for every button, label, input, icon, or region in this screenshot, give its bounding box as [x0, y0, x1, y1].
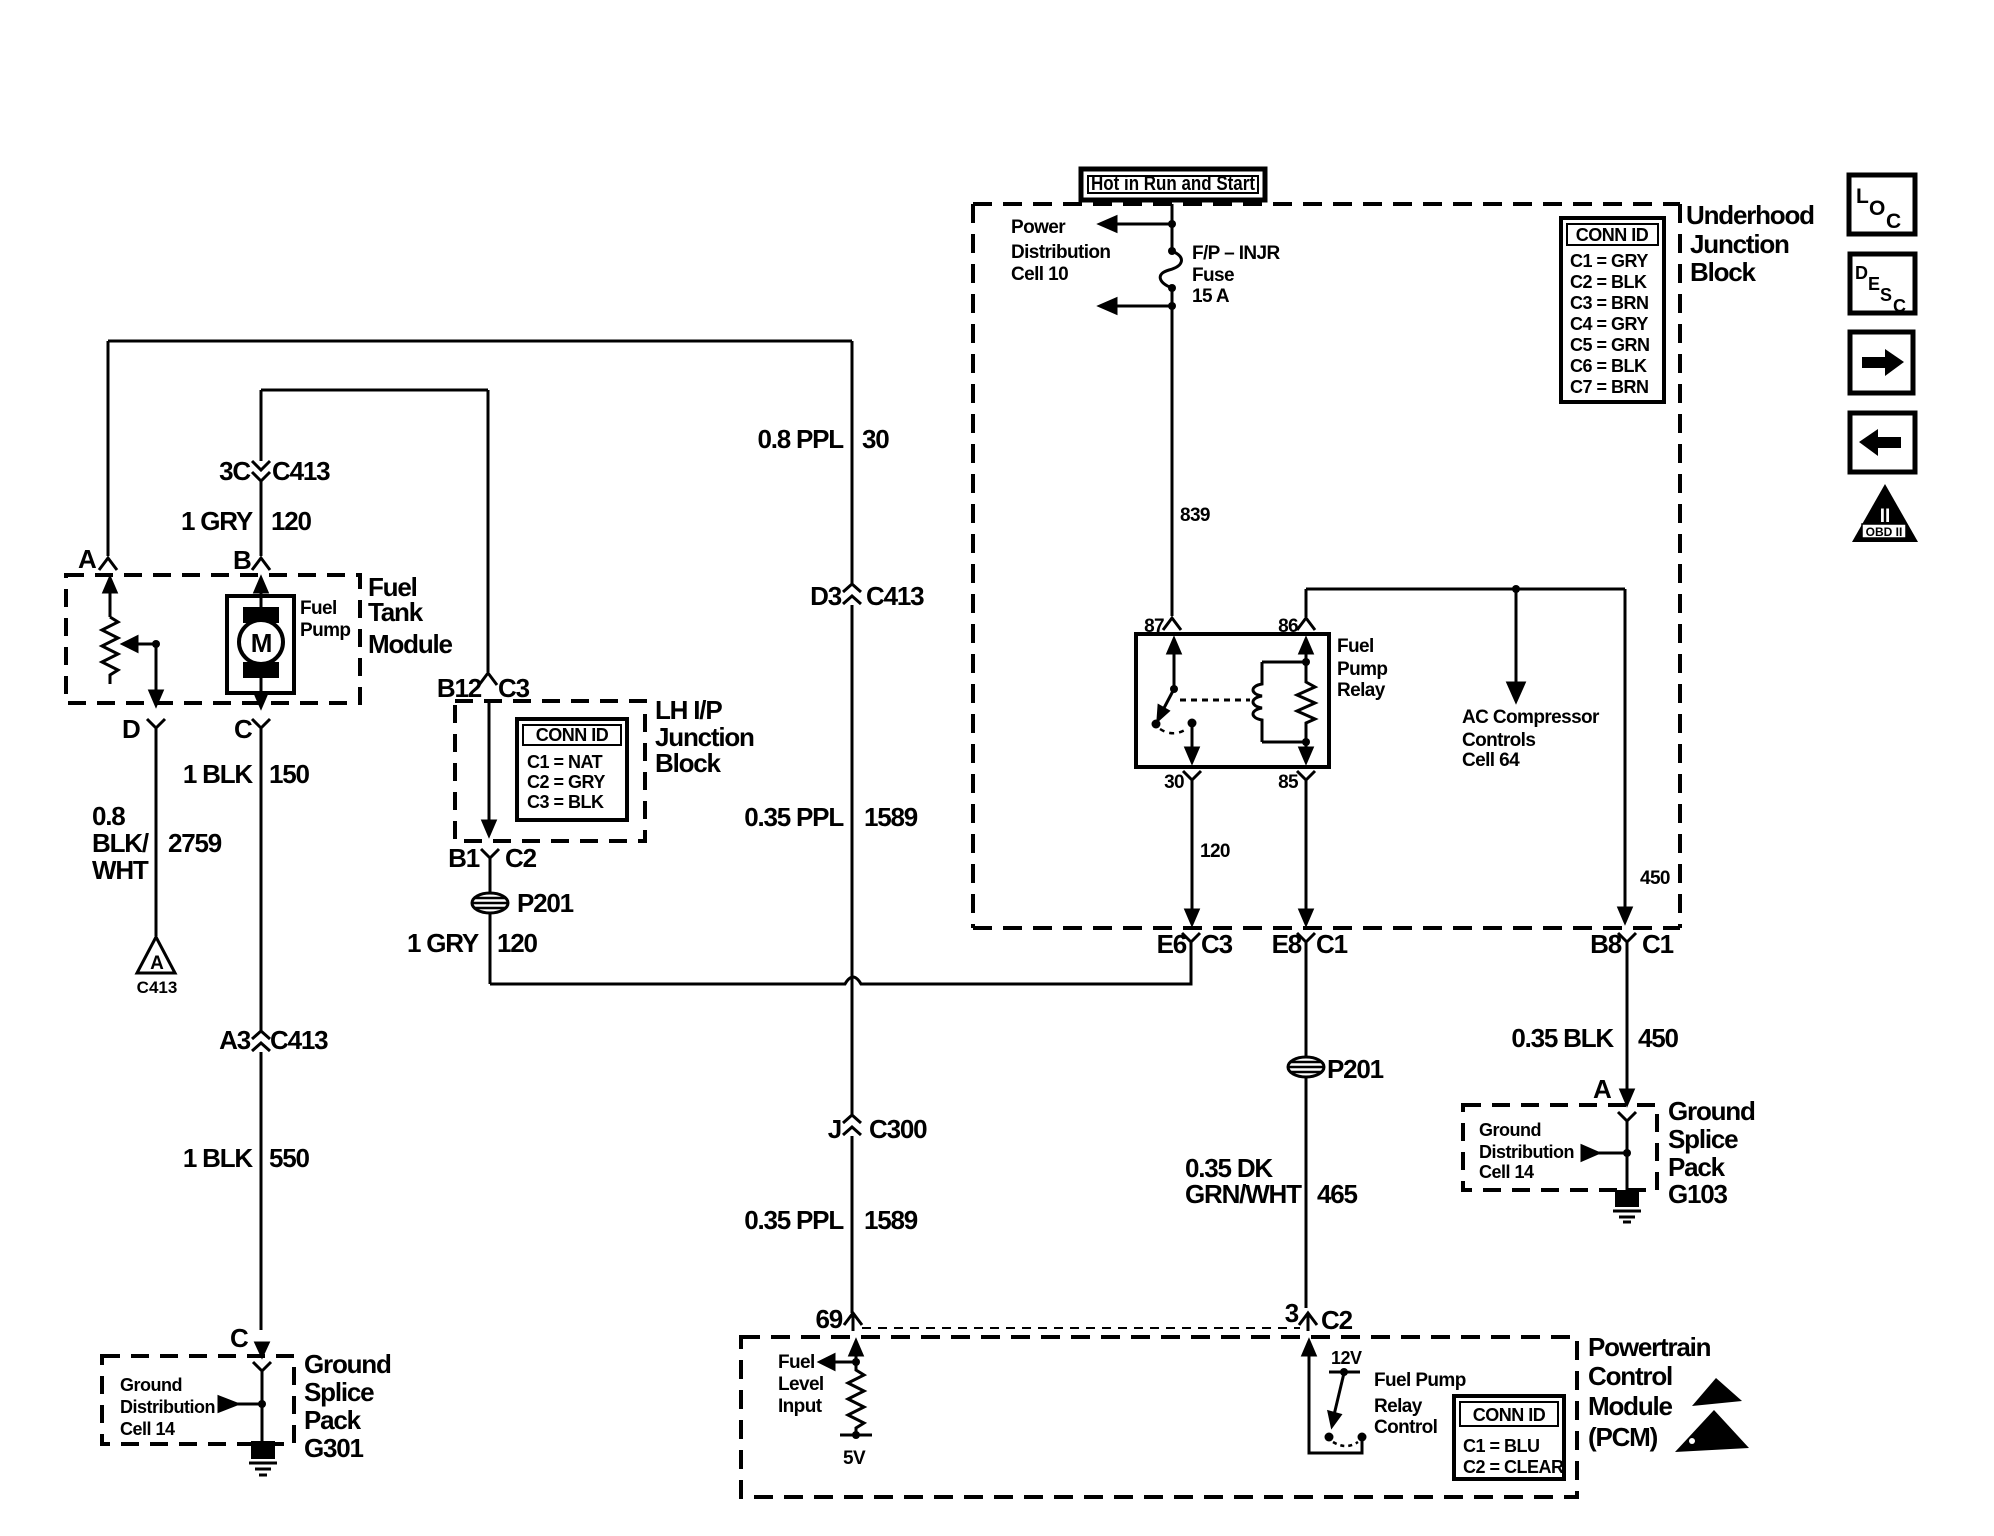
- svg-text:Distribution: Distribution: [1479, 1142, 1574, 1162]
- svg-text:M: M: [251, 628, 271, 658]
- wire C ground run: [260, 737, 263, 1330]
- ground splice pack G103 dashed box: [1463, 1105, 1657, 1190]
- svg-text:C6 = BLK: C6 = BLK: [1570, 356, 1647, 376]
- svg-text:Module: Module: [368, 629, 453, 659]
- connector B12 C3 chevron: [479, 673, 497, 685]
- svg-text:Relay: Relay: [1337, 680, 1386, 701]
- 12V supply bar: [1329, 1371, 1360, 1374]
- AC branch junction dot: [1512, 585, 1520, 593]
- svg-text:2759: 2759: [168, 828, 222, 858]
- svg-text:1 BLK: 1 BLK: [183, 1143, 254, 1173]
- relay switch arm: [1164, 689, 1174, 708]
- svg-text:Fuel Pump: Fuel Pump: [1374, 1370, 1466, 1391]
- svg-text:C4 = GRY: C4 = GRY: [1570, 314, 1648, 334]
- fuel level input text: [778, 1352, 824, 1417]
- svg-text:C413: C413: [270, 1025, 328, 1055]
- svg-text:Distribution: Distribution: [120, 1397, 215, 1417]
- relay actuation dashed link: [1180, 699, 1250, 702]
- svg-text:WHT: WHT: [92, 855, 149, 885]
- svg-text:CONN ID: CONN ID: [536, 725, 609, 745]
- svg-text:BLK/: BLK/: [92, 828, 149, 858]
- connector B1 C2 chevron: [481, 849, 499, 867]
- svg-text:C: C: [1886, 210, 1901, 233]
- fuel tank module label: [368, 572, 453, 659]
- power distribution cell 10 text: [1011, 217, 1281, 526]
- underhood junction block dashed box: [973, 204, 1680, 928]
- svg-text:Input: Input: [778, 1396, 823, 1417]
- icon LOC box: [1849, 175, 1915, 234]
- fuel level signal arrow left: [834, 1361, 856, 1364]
- wire AC compressor horizontal: [1306, 588, 1625, 591]
- LH I/P junction block label: [655, 695, 754, 778]
- icon back arrow box: [1850, 413, 1915, 472]
- relay internal resistor: [1297, 662, 1315, 742]
- fuel pump relay control text: [1374, 1370, 1466, 1438]
- svg-text:C7 = BRN: C7 = BRN: [1570, 377, 1649, 397]
- svg-text:1589: 1589: [864, 802, 918, 832]
- resistor (fuel level sender) arrow up: [109, 590, 112, 617]
- connector B8 C1 chevron: [1618, 933, 1636, 953]
- ESD warning triangle lower: [1675, 1410, 1749, 1452]
- 5V rail bar: [840, 1434, 872, 1437]
- svg-text:465: 465: [1317, 1179, 1358, 1209]
- relay pin 87 chevron: [1163, 618, 1181, 630]
- svg-text:Cell 64: Cell 64: [1462, 750, 1520, 771]
- fuel pump brush bottom: [243, 662, 279, 678]
- svg-text:C1 = BLU: C1 = BLU: [1463, 1436, 1540, 1456]
- svg-text:G103: G103: [1668, 1179, 1728, 1209]
- wire label 0.35 DK GRN/WHT 465: [1185, 1153, 1358, 1209]
- svg-text:Ground: Ground: [120, 1375, 182, 1395]
- svg-text:Control: Control: [1374, 1417, 1437, 1438]
- ground distribution cell 14 text: [120, 1375, 215, 1439]
- ground symbol G103: [1615, 1190, 1639, 1207]
- svg-text:C3 = BRN: C3 = BRN: [1570, 293, 1649, 313]
- svg-text:C5 = GRN: C5 = GRN: [1570, 335, 1650, 355]
- LH I/P junction block dashed box: [455, 701, 645, 841]
- wiper junction dot: [152, 640, 160, 648]
- svg-text:(PCM): (PCM): [1588, 1422, 1658, 1452]
- ground splice pack G301 label: [304, 1349, 391, 1463]
- relay pin 30 chevron: [1183, 771, 1201, 789]
- triangle connector A C413: [137, 937, 175, 973]
- svg-text:Relay: Relay: [1374, 1396, 1423, 1417]
- svg-text:CONN ID: CONN ID: [1473, 1405, 1546, 1425]
- AC compressor controls cell 64 text: [1462, 707, 1600, 771]
- relay control dashed travel arc: [1333, 1442, 1358, 1446]
- wire wiper down to D: [155, 644, 158, 697]
- svg-text:GRN/WHT: GRN/WHT: [1185, 1179, 1302, 1209]
- svg-text:A: A: [1593, 1074, 1612, 1104]
- wire second horizontal (gray feed): [261, 389, 488, 392]
- splice P201 (left): [472, 893, 508, 913]
- relay pin 87 internal arrow: [1173, 651, 1176, 689]
- node D connector chevron: [147, 719, 165, 737]
- wire D down to C413 triangle: [155, 737, 158, 936]
- ground splice pack G301 dashed box: [102, 1356, 294, 1444]
- svg-text:C1: C1: [1316, 929, 1348, 959]
- svg-text:Fuel: Fuel: [300, 598, 337, 619]
- svg-text:Fuel: Fuel: [1337, 636, 1374, 657]
- svg-text:C: C: [234, 714, 253, 744]
- svg-text:C2 = CLEAR: C2 = CLEAR: [1463, 1457, 1564, 1477]
- svg-text:Power: Power: [1011, 217, 1066, 238]
- svg-text:Ground: Ground: [1668, 1096, 1755, 1126]
- svg-text:Block: Block: [655, 748, 722, 778]
- wire label 0.8 BLK/WHT 2759: [92, 801, 222, 885]
- svg-text:C2: C2: [1321, 1305, 1353, 1335]
- fuel pump motor circle M: [239, 620, 283, 664]
- svg-text:AC Compressor: AC Compressor: [1462, 707, 1600, 728]
- svg-text:Ground: Ground: [1479, 1120, 1541, 1140]
- wire top horizontal (fuel level signal): [108, 340, 852, 343]
- svg-text:0.8 PPL: 0.8 PPL: [757, 424, 844, 454]
- svg-text:Control: Control: [1588, 1361, 1672, 1391]
- G103 connector chevron: [1618, 1112, 1636, 1130]
- underhood CONN ID table: [1561, 218, 1664, 402]
- relay coil: [1253, 662, 1262, 742]
- svg-text:Module: Module: [1588, 1391, 1673, 1421]
- wire B1 down: [489, 867, 492, 893]
- svg-text:C: C: [230, 1323, 249, 1353]
- svg-text:B8: B8: [1590, 929, 1622, 959]
- fuel pump label: [300, 598, 350, 641]
- connector pin 3 C2 chevron: [1299, 1313, 1317, 1331]
- relay pin 85 chevron: [1297, 771, 1315, 789]
- svg-text:85: 85: [1278, 772, 1299, 793]
- PCM connector face thin dashed line: [862, 1327, 1300, 1329]
- svg-text:D: D: [1855, 263, 1868, 283]
- svg-text:150: 150: [269, 759, 310, 789]
- wire PPL vertical main: [851, 341, 854, 1313]
- connector E6 C3 chevron: [1182, 933, 1200, 953]
- AC compressor branch arrow: [1515, 589, 1518, 688]
- svg-text:LH I/P: LH I/P: [655, 695, 722, 725]
- svg-text:B1: B1: [448, 843, 480, 873]
- wire to ground G301: [261, 1380, 264, 1441]
- wire through LH I/P block: [488, 701, 491, 826]
- svg-text:Pump: Pump: [1337, 659, 1387, 680]
- svg-text:120: 120: [271, 506, 312, 536]
- svg-text:3: 3: [1285, 1298, 1299, 1328]
- svg-text:C3 = BLK: C3 = BLK: [527, 792, 604, 812]
- svg-text:450: 450: [1640, 868, 1670, 889]
- svg-text:G301: G301: [304, 1433, 364, 1463]
- svg-text:Cell 14: Cell 14: [120, 1419, 175, 1439]
- fuel pump relay label: [1337, 636, 1387, 701]
- LH I/P CONN ID table: [517, 719, 627, 820]
- svg-text:E8: E8: [1272, 929, 1302, 959]
- svg-text:P201: P201: [1327, 1054, 1384, 1084]
- fuel pump outer box: [227, 596, 294, 693]
- ground distribution arm arrow G103: [1598, 1152, 1627, 1155]
- wire to ground G103: [1626, 1130, 1629, 1190]
- svg-text:C3: C3: [498, 673, 530, 703]
- fuel level input arrow into pin 69: [855, 1353, 858, 1362]
- svg-text:C2: C2: [505, 843, 537, 873]
- svg-text:A: A: [150, 953, 164, 974]
- svg-text:C1: C1: [1642, 929, 1674, 959]
- svg-text:0.35 PPL: 0.35 PPL: [744, 802, 844, 832]
- relay control wire L-shape with up arrow: [1309, 1353, 1362, 1453]
- wire B vertical: [260, 390, 263, 556]
- svg-text:D3: D3: [810, 581, 842, 611]
- PCM CONN ID table: [1454, 1396, 1564, 1479]
- ground distribution cell 14 text G103: [1479, 1120, 1574, 1182]
- resistor (fuel level sender) zigzag: [102, 617, 118, 684]
- svg-text:0.35 BLK: 0.35 BLK: [1511, 1023, 1614, 1053]
- icon forward arrow box: [1850, 332, 1913, 393]
- svg-text:B: B: [233, 545, 251, 575]
- wire to B12: [487, 390, 490, 672]
- svg-text:Level: Level: [778, 1374, 824, 1395]
- connector pin 69 chevron: [844, 1313, 862, 1331]
- svg-text:C413: C413: [866, 581, 924, 611]
- svg-text:A3: A3: [219, 1025, 251, 1055]
- relay pin 86 internal arrow: [1305, 651, 1308, 662]
- wire gray horizontal with hop over PPL: [490, 953, 1191, 984]
- splice P201 (right): [1288, 1057, 1324, 1077]
- fuel pump relay box: [1136, 634, 1329, 767]
- connector D3 C413 double chevron: [843, 584, 861, 604]
- svg-text:1589: 1589: [864, 1205, 918, 1235]
- node A connector chevron: [99, 558, 117, 570]
- connector 3C C413 double chevron: [252, 461, 270, 481]
- svg-text:Block: Block: [1690, 257, 1757, 287]
- svg-text:30: 30: [1164, 772, 1184, 793]
- svg-text:C3: C3: [1201, 929, 1233, 959]
- fuel tank module dashed box: [66, 575, 360, 703]
- connector E8 C1 chevron: [1297, 933, 1315, 953]
- svg-text:C2 = GRY: C2 = GRY: [527, 772, 605, 792]
- wire E8 down (dk grn/wht): [1305, 953, 1308, 1308]
- svg-text:E: E: [1868, 274, 1880, 294]
- svg-text:C1 = NAT: C1 = NAT: [527, 752, 603, 772]
- svg-text:Fuel: Fuel: [778, 1352, 815, 1373]
- wire battery feed into fuse: [1171, 204, 1174, 249]
- svg-text:1 BLK: 1 BLK: [183, 759, 254, 789]
- svg-text:Pack: Pack: [304, 1405, 362, 1435]
- svg-text:Distribution: Distribution: [1011, 242, 1110, 263]
- wire 86 drop: [1305, 589, 1308, 617]
- icon DESC box: [1850, 254, 1915, 313]
- ground symbol G301: [251, 1441, 275, 1459]
- svg-text:O: O: [1869, 197, 1885, 220]
- svg-text:3C: 3C: [219, 456, 251, 486]
- wiper arrow of sender: [137, 643, 156, 646]
- svg-text:OBD II: OBD II: [1866, 525, 1903, 539]
- svg-text:Ground: Ground: [304, 1349, 391, 1379]
- wire label 0.35 BLK 450: [1511, 1023, 1678, 1104]
- svg-text:S: S: [1880, 285, 1892, 305]
- svg-text:120: 120: [1200, 841, 1230, 862]
- svg-text:550: 550: [269, 1143, 310, 1173]
- fuel pump arrow up into B: [260, 590, 263, 607]
- ground distribution arm arrow: [237, 1403, 262, 1406]
- svg-text:C2 = BLK: C2 = BLK: [1570, 272, 1647, 292]
- relay pole dot: [1188, 719, 1197, 728]
- svg-text:Tank: Tank: [368, 597, 424, 627]
- svg-text:C413: C413: [272, 456, 330, 486]
- relay pin 86 chevron: [1297, 618, 1315, 630]
- powertrain control module label: [1588, 1332, 1711, 1452]
- relay control contact dot right: [1358, 1433, 1367, 1442]
- relay control contact dot left: [1325, 1433, 1334, 1442]
- underhood junction block label: [1686, 200, 1814, 287]
- connector A3 C413 double chevron: [252, 1031, 270, 1051]
- svg-text:L: L: [1856, 185, 1869, 208]
- fuel pump brush top: [243, 607, 279, 623]
- svg-text:Cell 10: Cell 10: [1011, 264, 1068, 285]
- svg-text:30: 30: [862, 424, 889, 454]
- wire 30 down to E6: [1191, 789, 1194, 914]
- ESD warning triangle upper: [1692, 1378, 1742, 1406]
- node C connector chevron: [252, 719, 270, 737]
- svg-text:C413: C413: [137, 978, 178, 997]
- svg-text:0.8: 0.8: [92, 801, 125, 831]
- svg-text:5V: 5V: [843, 1448, 866, 1469]
- svg-text:Controls: Controls: [1462, 730, 1535, 751]
- node B connector chevron: [252, 558, 270, 570]
- svg-text:E6: E6: [1157, 929, 1187, 959]
- svg-text:P201: P201: [517, 888, 574, 918]
- svg-text:Hot in Run and Start: Hot in Run and Start: [1091, 173, 1255, 195]
- power distribution arrow lower: [1116, 305, 1172, 308]
- connector J C300 double chevron: [843, 1115, 861, 1135]
- relay pole wire to pin 30: [1191, 723, 1194, 753]
- svg-text:B12: B12: [437, 673, 482, 703]
- icon OBD II triangle: [1852, 484, 1918, 542]
- fuel level input resistor: [848, 1362, 864, 1435]
- G103 junction dot: [1623, 1149, 1631, 1157]
- hot in run and start label box: [1081, 169, 1265, 200]
- svg-text:C300: C300: [869, 1114, 927, 1144]
- wire fuse down to relay 87: [1171, 288, 1174, 616]
- svg-text:12V: 12V: [1331, 1348, 1362, 1368]
- svg-text:Powertrain: Powertrain: [1588, 1332, 1711, 1362]
- svg-text:1 GRY: 1 GRY: [181, 506, 253, 536]
- wire P201 down: [489, 913, 492, 984]
- svg-text:F/P – INJR: F/P – INJR: [1192, 243, 1281, 264]
- power distribution arrow upper: [1116, 223, 1172, 226]
- svg-text:Fuse: Fuse: [1192, 265, 1234, 286]
- svg-text:Junction: Junction: [1690, 229, 1789, 259]
- relay control switch arm: [1334, 1373, 1344, 1415]
- wire left vertical to A terminal: [107, 341, 110, 556]
- svg-text:J: J: [828, 1114, 841, 1144]
- svg-text:69: 69: [815, 1304, 842, 1334]
- powertrain control module dashed box: [741, 1337, 1577, 1497]
- svg-text:0.35 PPL: 0.35 PPL: [744, 1205, 844, 1235]
- wire pump down to C: [260, 678, 263, 700]
- arrow into G301: [256, 1343, 268, 1356]
- relay switch dashed travel arc: [1160, 728, 1188, 733]
- svg-text:Splice: Splice: [304, 1377, 374, 1407]
- svg-text:A: A: [78, 544, 97, 574]
- svg-text:C1 = GRY: C1 = GRY: [1570, 251, 1648, 271]
- svg-text:1 GRY: 1 GRY: [407, 928, 479, 958]
- wire 450 down to B8: [1624, 589, 1627, 912]
- G301 junction dot: [258, 1400, 266, 1408]
- svg-text:15 A: 15 A: [1192, 286, 1230, 307]
- svg-text:CONN ID: CONN ID: [1576, 225, 1649, 245]
- relay coil wire to pin 85: [1305, 742, 1308, 753]
- svg-text:450: 450: [1638, 1023, 1679, 1053]
- G301 connector chevron: [253, 1362, 271, 1380]
- svg-text:C: C: [1893, 296, 1906, 316]
- wire 85 down to E8: [1305, 789, 1308, 914]
- svg-text:839: 839: [1180, 505, 1210, 526]
- svg-text:120: 120: [497, 928, 538, 958]
- svg-text:Pump: Pump: [300, 620, 350, 641]
- fuse F/P-INJR 15A: [1168, 247, 1176, 255]
- svg-text:D: D: [122, 714, 140, 744]
- svg-text:Pack: Pack: [1668, 1152, 1726, 1182]
- svg-text:Underhood: Underhood: [1686, 200, 1814, 230]
- ground splice pack G103 label: [1668, 1096, 1755, 1209]
- svg-text:Splice: Splice: [1668, 1124, 1738, 1154]
- svg-text:Cell 14: Cell 14: [1479, 1162, 1534, 1182]
- wire B8 down to G103: [1626, 953, 1629, 1094]
